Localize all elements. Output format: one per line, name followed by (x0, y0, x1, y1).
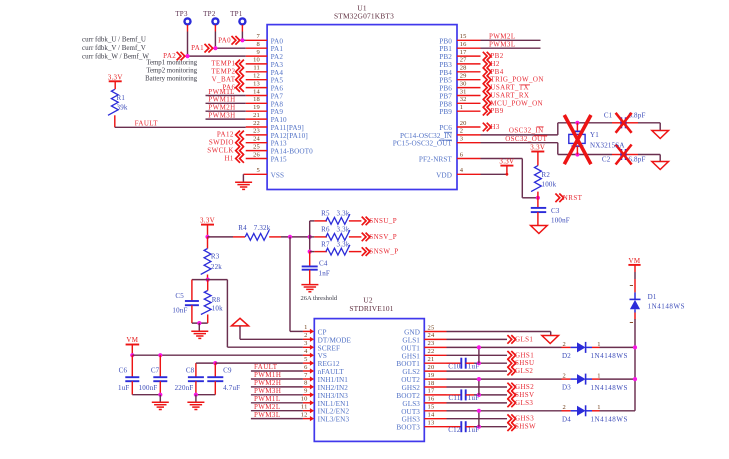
svg-text:R6: R6 (321, 226, 330, 234)
svg-text:6: 6 (460, 151, 464, 158)
svg-text:curr fdbk_V / Bemf_V: curr fdbk_V / Bemf_V (82, 44, 146, 52)
svg-text:PC6: PC6 (439, 124, 452, 132)
svg-text:R8: R8 (212, 296, 221, 304)
svg-text:SNSW_P: SNSW_P (369, 248, 398, 256)
svg-text:SWCLK: SWCLK (207, 146, 234, 154)
svg-text:PA6: PA6 (271, 85, 284, 93)
svg-text:PA13: PA13 (271, 140, 287, 148)
svg-text:20: 20 (460, 120, 467, 127)
svg-text:D1: D1 (648, 293, 657, 301)
svg-text:17: 17 (460, 49, 467, 56)
svg-text:TP3: TP3 (175, 10, 188, 18)
svg-text:19: 19 (428, 372, 435, 379)
svg-text:NRST: NRST (563, 194, 583, 202)
svg-text:SHSU: SHSU (515, 359, 535, 367)
svg-text:26: 26 (253, 151, 260, 158)
svg-text:3.3k: 3.3k (337, 210, 350, 218)
svg-text:SNSV_P: SNSV_P (369, 233, 397, 241)
svg-text:GHS2: GHS2 (402, 384, 421, 392)
svg-text:20: 20 (428, 364, 435, 371)
svg-text:PB9: PB9 (439, 108, 452, 116)
svg-text:PA11[PA9]: PA11[PA9] (271, 124, 304, 132)
svg-text:PB4: PB4 (439, 69, 452, 77)
svg-text:PWM2H: PWM2H (208, 104, 235, 112)
svg-text:11: 11 (301, 404, 308, 411)
svg-text:PA2: PA2 (271, 53, 284, 61)
svg-text:PA0: PA0 (271, 37, 284, 45)
svg-text:1uF: 1uF (468, 363, 480, 371)
svg-text:22: 22 (253, 120, 260, 127)
svg-text:10nF: 10nF (172, 307, 187, 315)
svg-text:1: 1 (597, 404, 600, 411)
svg-text:OUT2: OUT2 (401, 376, 420, 384)
svg-text:BOOT1: BOOT1 (396, 360, 420, 368)
svg-text:PC14-OSC32_IN: PC14-OSC32_IN (400, 132, 453, 140)
svg-text:C12: C12 (448, 426, 461, 434)
svg-text:R4: R4 (238, 224, 247, 232)
svg-text:100nF: 100nF (139, 384, 158, 392)
svg-text:C1: C1 (604, 111, 613, 119)
svg-text:curr fdbk_W / Bemf_W: curr fdbk_W / Bemf_W (82, 53, 149, 61)
svg-text:21: 21 (253, 112, 260, 119)
svg-text:GHS1: GHS1 (402, 352, 421, 360)
svg-text:C2: C2 (602, 156, 611, 164)
svg-text:PA0: PA0 (218, 36, 231, 44)
svg-text:VM: VM (629, 257, 641, 265)
svg-text:BOOT3: BOOT3 (396, 424, 420, 432)
svg-text:12: 12 (301, 411, 308, 418)
svg-text:GLS1: GLS1 (515, 335, 533, 343)
svg-text:PA5: PA5 (271, 77, 284, 85)
svg-text:Temp1 monitoring: Temp1 monitoring (146, 60, 197, 67)
svg-text:TEMP1: TEMP1 (211, 60, 235, 68)
svg-text:4.7uF: 4.7uF (223, 384, 240, 392)
svg-text:26A threshold: 26A threshold (301, 295, 338, 302)
svg-text:GLS2: GLS2 (515, 367, 533, 375)
svg-text:1uF: 1uF (468, 426, 480, 434)
svg-text:18: 18 (253, 96, 260, 103)
svg-text:H3: H3 (490, 123, 499, 131)
svg-text:PB3: PB3 (439, 61, 452, 69)
svg-text:V_BAT: V_BAT (212, 76, 236, 84)
svg-text:PA1: PA1 (191, 44, 204, 52)
svg-text:VDD: VDD (436, 171, 452, 179)
svg-text:PWM2L: PWM2L (254, 403, 281, 411)
svg-text:PWM3H: PWM3H (254, 387, 281, 395)
svg-text:PWM1L: PWM1L (254, 395, 281, 403)
svg-text:10: 10 (301, 396, 308, 403)
svg-text:TRIG_POW_ON: TRIG_POW_ON (490, 76, 543, 84)
svg-text:PB2: PB2 (490, 52, 503, 60)
svg-text:22: 22 (428, 348, 435, 355)
svg-text:1N4148WS: 1N4148WS (591, 416, 628, 424)
svg-text:FAULT: FAULT (254, 363, 278, 371)
svg-text:8: 8 (257, 41, 260, 48)
svg-text:PWM1H: PWM1H (208, 96, 235, 104)
svg-text:PA7: PA7 (271, 93, 284, 101)
svg-text:GHS3: GHS3 (515, 415, 534, 423)
svg-text:Battery monitoring: Battery monitoring (145, 75, 198, 82)
svg-text:PB8: PB8 (439, 100, 452, 108)
svg-text:GHS2: GHS2 (515, 383, 534, 391)
svg-text:CP: CP (318, 328, 327, 336)
svg-text:1uF: 1uF (468, 394, 480, 402)
svg-text:3: 3 (460, 136, 463, 143)
svg-text:C3: C3 (551, 207, 560, 215)
svg-text:INL3/EN3: INL3/EN3 (318, 416, 350, 424)
svg-text:H2: H2 (490, 60, 499, 68)
svg-text:29: 29 (460, 73, 467, 80)
svg-text:PWM1L: PWM1L (208, 88, 235, 96)
svg-text:C5: C5 (175, 292, 184, 300)
svg-text:3.3k: 3.3k (337, 226, 350, 234)
svg-text:1N4148WS: 1N4148WS (591, 352, 628, 360)
svg-text:23: 23 (428, 340, 435, 347)
svg-text:5: 5 (304, 356, 307, 363)
svg-text:6: 6 (304, 364, 308, 371)
svg-text:C9: C9 (223, 367, 232, 375)
svg-text:USART_TX: USART_TX (490, 84, 529, 92)
svg-text:BOOT2: BOOT2 (396, 392, 420, 400)
svg-text:16: 16 (460, 41, 467, 48)
svg-text:14: 14 (253, 88, 260, 95)
svg-text:SCREF: SCREF (318, 344, 340, 352)
svg-text:30: 30 (460, 80, 467, 87)
svg-text:9: 9 (257, 49, 260, 56)
svg-text:C8: C8 (186, 367, 195, 375)
svg-text:INH2/IN2: INH2/IN2 (318, 384, 349, 392)
svg-text:21: 21 (428, 356, 435, 363)
svg-text:27: 27 (460, 57, 467, 64)
svg-text:GHS1: GHS1 (515, 351, 534, 359)
svg-text:REG12: REG12 (318, 360, 340, 368)
svg-text:100k: 100k (542, 180, 557, 188)
svg-text:NX3215SA: NX3215SA (590, 142, 625, 150)
svg-text:INH3/IN3: INH3/IN3 (318, 392, 349, 400)
svg-text:DT/MODE: DT/MODE (318, 336, 352, 344)
svg-text:1uF: 1uF (118, 384, 130, 392)
svg-text:2: 2 (563, 341, 566, 348)
svg-text:Y1: Y1 (590, 131, 599, 139)
svg-text:C10: C10 (448, 363, 461, 371)
svg-text:22k: 22k (211, 263, 222, 271)
svg-text:1N4148WS: 1N4148WS (591, 384, 628, 392)
svg-text:5: 5 (257, 167, 260, 174)
svg-text:PA4: PA4 (271, 69, 284, 77)
svg-text:PB9: PB9 (490, 107, 503, 115)
svg-text:STDRIVE101: STDRIVE101 (349, 304, 393, 313)
svg-text:R7: R7 (321, 240, 330, 248)
svg-text:23: 23 (253, 128, 260, 135)
svg-text:INH1/IN1: INH1/IN1 (318, 376, 349, 384)
svg-text:15: 15 (460, 33, 467, 40)
svg-text:C7: C7 (151, 367, 160, 375)
svg-text:GND: GND (404, 329, 420, 337)
svg-text:4: 4 (304, 348, 308, 355)
svg-text:32: 32 (460, 96, 467, 103)
svg-text:FAULT: FAULT (135, 119, 159, 127)
svg-text:PB4: PB4 (490, 68, 503, 76)
svg-text:C11: C11 (448, 394, 460, 402)
svg-text:nFAULT: nFAULT (318, 368, 345, 376)
svg-text:OUT3: OUT3 (401, 408, 420, 416)
svg-text:GLS3: GLS3 (515, 399, 533, 407)
svg-text:10: 10 (253, 57, 260, 64)
svg-text:220nF: 220nF (175, 384, 194, 392)
svg-text:PA1: PA1 (271, 45, 284, 53)
svg-text:3: 3 (304, 340, 307, 347)
svg-text:PWM3H: PWM3H (208, 112, 235, 120)
svg-text:25: 25 (253, 143, 260, 150)
svg-text:31: 31 (460, 88, 467, 95)
svg-text:3.3V: 3.3V (530, 144, 545, 152)
svg-text:PA9: PA9 (271, 108, 284, 116)
svg-text:2: 2 (563, 373, 566, 380)
svg-text:R3: R3 (211, 253, 220, 261)
svg-text:PA12: PA12 (217, 131, 234, 139)
svg-text:R1: R1 (117, 94, 126, 102)
svg-text:PC15-OSC32_OUT: PC15-OSC32_OUT (393, 140, 453, 148)
svg-text:SNSU_P: SNSU_P (369, 217, 397, 225)
svg-text:PWM2L: PWM2L (489, 33, 516, 41)
svg-text:24: 24 (253, 136, 260, 143)
svg-text:14: 14 (428, 412, 435, 419)
svg-text:PB0: PB0 (439, 37, 452, 45)
svg-text:18: 18 (428, 380, 435, 387)
svg-text:13: 13 (253, 80, 260, 87)
svg-text:GLS3: GLS3 (402, 400, 420, 408)
svg-text:15: 15 (428, 404, 435, 411)
svg-text:SWDIO: SWDIO (209, 139, 234, 147)
svg-text:PA15: PA15 (271, 156, 287, 164)
svg-text:PB7: PB7 (439, 93, 452, 101)
svg-text:VS: VS (318, 352, 327, 360)
svg-text:PWM1H: PWM1H (254, 371, 281, 379)
svg-text:9: 9 (304, 388, 307, 395)
svg-text:TP1: TP1 (230, 10, 243, 18)
svg-text:PWM3L: PWM3L (489, 41, 516, 49)
svg-text:C4: C4 (319, 259, 328, 267)
svg-text:7: 7 (304, 372, 308, 379)
svg-text:TP2: TP2 (203, 10, 216, 18)
svg-text:OSC32_OUT: OSC32_OUT (505, 135, 547, 143)
svg-text:100nF: 100nF (551, 216, 570, 224)
svg-text:STM32G071KBT3: STM32G071KBT3 (334, 12, 394, 21)
svg-text:PB6: PB6 (439, 85, 452, 93)
svg-text:28: 28 (460, 65, 467, 72)
svg-text:PA12[PA10]: PA12[PA10] (271, 132, 308, 140)
svg-text:TEMP2: TEMP2 (211, 68, 235, 76)
svg-text:GHS3: GHS3 (402, 416, 421, 424)
svg-text:13: 13 (428, 420, 435, 427)
svg-text:3.3V: 3.3V (200, 217, 215, 225)
svg-text:3.3V: 3.3V (499, 158, 514, 166)
svg-text:curr fdbk_U / Bemf_U: curr fdbk_U / Bemf_U (82, 35, 146, 43)
svg-text:16: 16 (428, 396, 435, 403)
svg-text:10k: 10k (212, 305, 223, 313)
svg-text:C6: C6 (119, 367, 128, 375)
svg-text:PA8: PA8 (271, 100, 284, 108)
svg-text:OUT1: OUT1 (401, 344, 420, 352)
svg-text:1: 1 (597, 373, 600, 380)
svg-text:SHSW: SHSW (515, 423, 536, 431)
svg-text:24: 24 (428, 332, 435, 339)
svg-text:4: 4 (460, 167, 464, 174)
svg-text:D2: D2 (562, 352, 571, 360)
svg-text:1N4148WS: 1N4148WS (648, 302, 685, 310)
svg-text:PB5: PB5 (439, 77, 452, 85)
svg-text:1: 1 (460, 104, 463, 111)
svg-text:D4: D4 (562, 415, 571, 423)
svg-text:PWM3L: PWM3L (254, 411, 281, 419)
svg-text:INL2/EN2: INL2/EN2 (318, 408, 350, 416)
svg-text:19: 19 (253, 104, 260, 111)
svg-text:1: 1 (597, 341, 600, 348)
svg-text:7.32k: 7.32k (254, 224, 271, 232)
svg-text:H1: H1 (224, 154, 233, 162)
svg-text:GLS1: GLS1 (402, 336, 420, 344)
svg-text:R2: R2 (542, 171, 551, 179)
svg-text:2: 2 (460, 128, 463, 135)
svg-text:SHSV: SHSV (515, 391, 535, 399)
svg-text:11: 11 (253, 65, 260, 72)
svg-text:PA3: PA3 (271, 61, 284, 69)
svg-text:8: 8 (304, 380, 307, 387)
svg-text:1: 1 (304, 324, 307, 331)
svg-text:17: 17 (428, 388, 435, 395)
svg-text:3.3V: 3.3V (108, 73, 123, 81)
svg-text:2: 2 (304, 332, 307, 339)
svg-text:7: 7 (257, 33, 261, 40)
svg-text:39k: 39k (117, 104, 128, 112)
svg-text:USART_RX: USART_RX (490, 92, 529, 100)
svg-text:12: 12 (253, 73, 260, 80)
svg-text:D3: D3 (562, 384, 571, 392)
svg-text:2: 2 (563, 404, 566, 411)
svg-text:R5: R5 (321, 210, 330, 218)
svg-text:PA10: PA10 (271, 116, 287, 124)
svg-text:3.3k: 3.3k (337, 240, 350, 248)
svg-text:GLS2: GLS2 (402, 368, 420, 376)
svg-text:1nF: 1nF (319, 269, 331, 277)
svg-text:VSS: VSS (271, 171, 285, 179)
svg-text:INL1/EN1: INL1/EN1 (318, 400, 350, 408)
svg-text:MCU_POW_ON: MCU_POW_ON (490, 99, 543, 107)
svg-text:PF2-NRST: PF2-NRST (419, 156, 453, 164)
svg-text:VM: VM (126, 336, 138, 344)
svg-text:PB1: PB1 (439, 45, 452, 53)
svg-text:PWM2H: PWM2H (254, 379, 281, 387)
svg-text:PA14-BOOT0: PA14-BOOT0 (271, 148, 314, 156)
svg-text:OSC32_IN: OSC32_IN (509, 126, 544, 134)
svg-text:Temp2 monitoring: Temp2 monitoring (146, 68, 197, 75)
svg-text:PB2: PB2 (439, 53, 452, 61)
svg-text:25: 25 (428, 324, 435, 331)
